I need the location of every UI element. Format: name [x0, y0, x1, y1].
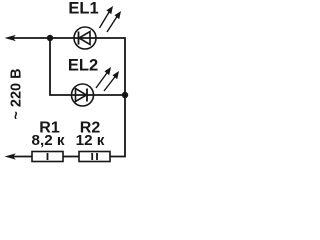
svg-text:12 к: 12 к [76, 132, 105, 149]
svg-text:EL1: EL1 [68, 0, 98, 18]
svg-text:~ 220 В: ~ 220 В [9, 68, 25, 119]
svg-text:EL2: EL2 [68, 57, 98, 75]
svg-text:8,2 к: 8,2 к [32, 132, 65, 149]
